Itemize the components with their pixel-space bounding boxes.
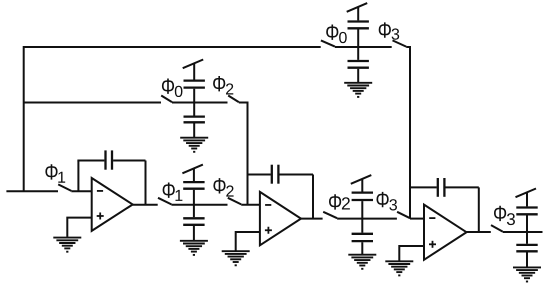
switch Phi0 (middle row) arm <box>161 96 172 103</box>
label Phi1 (row 2) <box>163 182 183 200</box>
capacitor B2 upper C <box>183 182 204 189</box>
wire B1 stub below node <box>193 103 195 116</box>
wire U3 output <box>467 231 491 233</box>
label Phi2 (middle row) <box>213 76 233 94</box>
switch Phi0 (top row) arm <box>321 40 335 46</box>
wire B3 stub to node <box>361 201 363 219</box>
ground BT <box>344 83 372 97</box>
wire U3 feedback right vertical <box>478 187 480 232</box>
switch B3-top (open, above C) <box>351 175 372 184</box>
wire BR stub to ground <box>526 252 528 267</box>
capacitor U3 feedback C <box>438 178 445 197</box>
wire B2 stub to node <box>193 190 195 205</box>
wire middle feed to switch Phi0 <box>24 102 161 104</box>
wire top row corner down to U3 input <box>406 47 410 219</box>
wire U1 output <box>133 204 158 206</box>
label Phi2 (row 2) <box>213 178 233 196</box>
wire B3 stub below node <box>361 219 363 233</box>
wire BT top stub <box>357 7 359 20</box>
ground U3 <box>385 261 413 275</box>
op-amp U2 minus sign <box>265 204 271 206</box>
wire U1 feedback right vertical <box>145 161 147 205</box>
wire BT stub below node <box>357 47 359 60</box>
op-amp U1 <box>92 178 133 231</box>
switch Phi2 (row 2) arm <box>228 198 241 205</box>
wire row 3 to U3 inverting input <box>410 218 424 220</box>
ground U2 <box>222 251 250 265</box>
capacitor BT lower C <box>348 61 369 68</box>
wire U2 feedback top left <box>247 174 271 176</box>
label Phi2 (row 3) <box>329 194 350 209</box>
wire B3 stub to ground <box>361 242 363 255</box>
label Phi3 (row 3) <box>376 192 396 211</box>
capacitor BT upper C <box>348 22 369 29</box>
capacitor U2 feedback C <box>272 165 279 184</box>
wire BR stub below node <box>526 232 528 244</box>
label Phi3 (top row) <box>379 22 399 39</box>
wire U1 feedback top left <box>77 160 104 162</box>
switch Phi3 (row 3) arm <box>397 212 410 218</box>
wire middle row between switches <box>172 102 228 104</box>
wire U2 feedback right vertical <box>312 175 314 219</box>
wire input stub <box>6 190 58 192</box>
capacitor B3 lower C <box>352 234 373 241</box>
wire U1 feedback top right <box>113 160 145 162</box>
capacitor U1 feedback C <box>106 150 113 169</box>
switch B1-top (open, above C) <box>183 60 204 69</box>
wire U3 plus input to ground <box>399 246 424 261</box>
wire left vertical feed <box>23 46 25 191</box>
wire B1 stub to ground <box>193 123 195 137</box>
ground B3 <box>348 255 376 269</box>
wire B3 top stub <box>361 179 363 192</box>
switch Phi2 (middle row) arm <box>228 96 239 103</box>
wire B2 top stub <box>193 169 195 182</box>
wire row 2 to U2 inverting input <box>241 204 260 206</box>
label Phi0 (top row) <box>326 25 347 44</box>
wire BR stub to node <box>526 215 528 232</box>
wire B1 top stub <box>193 63 195 79</box>
wire B2 stub below node <box>193 205 195 217</box>
switch Phi3 (top row) arm <box>393 40 407 46</box>
capacitor B2 lower C <box>183 218 204 225</box>
wire B1 stub to node <box>193 89 195 103</box>
wire U3 feedback top right <box>445 186 478 188</box>
ground B2 <box>180 241 208 255</box>
capacitor B3 upper C <box>352 193 373 200</box>
capacitor BR lower C <box>516 245 537 251</box>
op-amp U1 plus sign <box>97 212 104 219</box>
wire U3 feedback top left <box>409 186 437 188</box>
switch Phi1 (row 2) arm <box>158 198 171 205</box>
capacitor BR upper C <box>516 208 537 215</box>
op-amp U3 <box>424 205 467 260</box>
op-amp U1 minus sign <box>97 190 103 192</box>
wire B2 stub to ground <box>193 226 195 241</box>
switch B2-top (open, above C) <box>182 165 203 174</box>
capacitor B1 upper C <box>184 81 205 88</box>
wire output row to branch <box>503 231 543 233</box>
op-amp U3 plus sign <box>429 241 436 248</box>
label Phi1 (input) <box>45 164 65 182</box>
wire BR top stub <box>526 192 528 206</box>
wire U1 feedback left vertical <box>77 161 79 192</box>
wire to U1 inverting input <box>71 190 91 192</box>
label Phi0 (middle row) <box>162 78 183 97</box>
op-amp U3 minus sign <box>429 217 435 219</box>
wire U2 output <box>301 218 323 220</box>
wire U2 feedback top right <box>279 174 313 176</box>
ground B1 <box>180 138 208 152</box>
op-amp U2 <box>260 192 301 245</box>
switch BT-top (open, above C) <box>347 3 368 12</box>
op-amp U2 plus sign <box>265 227 272 234</box>
switch Phi2 (row 3) arm <box>323 212 337 218</box>
capacitor B1 lower C <box>184 117 205 123</box>
wire top feed to switch Phi0 <box>24 46 321 48</box>
wire BT stub to ground <box>357 69 359 83</box>
switch Phi3 (output) arm <box>491 225 503 232</box>
wire middle row corner down to U2 input <box>239 103 248 205</box>
wire BT stub to node <box>357 29 359 47</box>
wire row 2 between switches <box>171 204 227 206</box>
wire U2 plus input to ground <box>236 232 260 251</box>
switch BR-top (open, above C) <box>516 189 537 198</box>
ground U1 <box>53 238 81 252</box>
wire row 3 between switches <box>337 218 397 220</box>
label Phi3 (output) <box>494 206 515 225</box>
wire U1 plus input to ground <box>67 218 91 237</box>
switch Phi1 (input) arm <box>58 184 71 191</box>
ground BR <box>513 267 541 281</box>
wire top row between switches <box>335 46 392 48</box>
